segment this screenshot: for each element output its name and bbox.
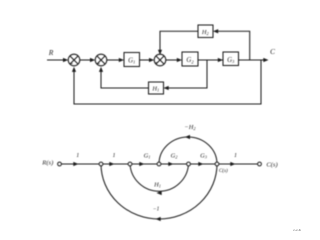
svg-text:C(s): C(s)	[219, 167, 228, 174]
svg-text:−1: −1	[153, 207, 160, 213]
svg-text:1: 1	[234, 153, 237, 159]
svg-text:c-c-b: c-c-b	[293, 228, 300, 232]
svg-text:C(s): C(s)	[266, 162, 277, 169]
svg-text:R: R	[48, 48, 54, 57]
svg-text:R(s): R(s)	[41, 159, 53, 166]
svg-text:1: 1	[76, 153, 79, 159]
svg-text:1: 1	[113, 153, 116, 159]
